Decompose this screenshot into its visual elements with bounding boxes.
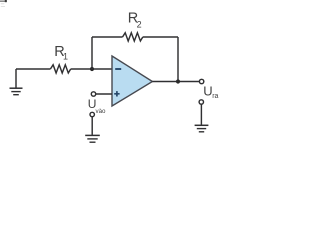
wire: top rail right segment	[143, 36, 178, 38]
svg-text:ra: ra	[212, 93, 218, 100]
wire: feedback drop to output	[177, 37, 179, 82]
ground (right)	[195, 125, 209, 132]
wire: input line from left corner to R1	[16, 68, 50, 70]
label R2	[128, 11, 142, 30]
svg-text:1: 1	[63, 52, 68, 62]
wire: R1 to op-amp inverting input	[71, 68, 112, 70]
wire: non-inverting input	[96, 93, 112, 95]
crop artifact top-left	[0, 0, 7, 7]
wire: output line	[152, 81, 199, 83]
op-amp U1	[112, 56, 152, 106]
input terminal circle (lower)	[90, 112, 94, 116]
wire: right ground riser	[200, 104, 202, 124]
resistor R2	[123, 33, 143, 41]
label U_ra	[203, 84, 218, 100]
op-amp minus sign	[115, 68, 121, 70]
wire: feedback riser up	[91, 37, 93, 69]
svg-text:vào: vào	[96, 108, 107, 115]
output junction dot	[176, 79, 180, 83]
label R1	[54, 44, 68, 62]
ground (bottom middle)	[85, 135, 100, 142]
wire: top rail left segment	[92, 36, 123, 38]
node A junction dot	[90, 67, 94, 71]
output terminal circle	[199, 79, 203, 83]
wire: bottom ground riser	[91, 117, 93, 135]
label U_vao	[88, 97, 106, 115]
lower-right terminal circle	[199, 100, 203, 104]
input terminal circle (upper)	[91, 92, 95, 96]
ground (left)	[10, 88, 23, 95]
svg-text:2: 2	[137, 20, 142, 30]
resistor R1	[50, 65, 70, 73]
wire: left ground riser	[15, 69, 17, 88]
op-amp plus sign	[114, 91, 119, 96]
